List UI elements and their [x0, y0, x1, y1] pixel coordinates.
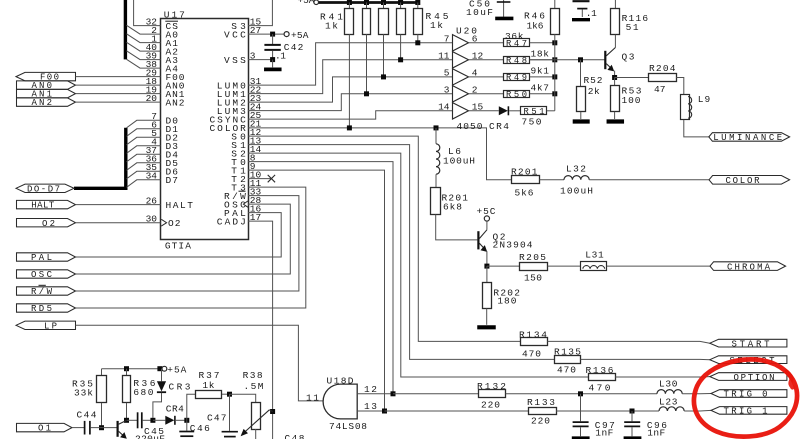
wire bus stub A0 [127, 25, 161, 34]
wire HALT to pin 26 [76, 204, 161, 206]
connector LUMINANCE (output flag) [709, 133, 790, 142]
svg-text:7: 7 [444, 33, 450, 44]
svg-text:20: 20 [146, 93, 158, 104]
svg-text:26: 26 [146, 195, 158, 206]
svg-text:R134: R134 [519, 329, 547, 340]
wire VCC pin27 to +5A [248, 33, 284, 35]
connector PAL (input flag) [17, 253, 76, 261]
svg-text:L30: L30 [659, 379, 678, 390]
svg-text:34: 34 [146, 171, 158, 182]
wire R/W pin33 to R/W flag [76, 196, 299, 291]
transistor Q3 [614, 35, 616, 48]
wire buffer5 out [469, 110, 499, 112]
GTIA chip U17 body [161, 19, 249, 240]
svg-text:5: 5 [444, 68, 450, 79]
svg-text:36k: 36k [505, 31, 524, 42]
resistor R41 1k [347, 0, 352, 5]
svg-text:470: 470 [557, 365, 576, 376]
ground R53 [614, 112, 616, 119]
connector START (output flag) [710, 339, 787, 347]
svg-text:100uH: 100uH [443, 155, 475, 166]
wire buffer out to R49 [469, 76, 504, 78]
svg-text:L23: L23 [659, 397, 678, 408]
svg-text:C48: C48 [285, 433, 305, 439]
AND gate U18D 74LS08 (mirrored) [323, 384, 357, 419]
svg-text:.1: .1 [275, 51, 286, 62]
svg-text:2N3904: 2N3904 [493, 240, 533, 251]
svg-text:CR3: CR3 [169, 381, 191, 392]
connector SELECT (output flag) [710, 356, 787, 364]
node CR3/C45 [150, 418, 155, 423]
node Q3 emitter [612, 75, 617, 80]
svg-text:R38: R38 [243, 370, 263, 381]
connector LP (output flag) [16, 321, 76, 329]
svg-text:1nF: 1nF [595, 428, 613, 439]
inductor L31 [581, 262, 607, 271]
wire LUM3 to buffer U20 input [248, 94, 453, 111]
svg-text:+5A: +5A [167, 364, 186, 375]
transistor Q2 2N3904 [486, 221, 488, 230]
trimmer R38 .5M [252, 403, 261, 430]
resistor R36 680 [126, 369, 128, 376]
svg-text:10uF: 10uF [466, 7, 493, 18]
svg-text:LUMINANCE: LUMINANCE [713, 133, 782, 143]
svg-text:680: 680 [133, 387, 153, 398]
svg-text:HALT: HALT [31, 201, 55, 211]
red annotation circle around OPTION/TRIG connectors [694, 359, 797, 436]
svg-text:750: 750 [522, 116, 542, 127]
node T1 / U18D pin13 [382, 409, 387, 414]
svg-text:C42: C42 [284, 42, 304, 53]
capacitor C96 1nF [631, 411, 633, 421]
capacitor C42 [272, 34, 274, 44]
wire R205 to L31 [548, 265, 581, 267]
svg-text:C46: C46 [190, 423, 210, 434]
resistor R136 470 [589, 374, 616, 381]
svg-text:L31: L31 [585, 250, 604, 261]
buffer U20 gate 3 [453, 69, 469, 85]
resistor R47 36k [504, 39, 530, 47]
resistor R202 180 [486, 266, 488, 283]
wire S3 pin15 up to top edge [248, 0, 272, 26]
wire R132 to L30 [506, 393, 657, 395]
wire L9 to LUMINANCE [684, 120, 710, 137]
no-connect X on T2 [268, 175, 275, 182]
connector HALT (input flag) [17, 200, 76, 208]
svg-text:R133: R133 [527, 397, 555, 408]
resistor R45 1k [415, 0, 420, 5]
wire S2 pin14 to R136 [248, 153, 589, 377]
connector OSC (input flag) [17, 270, 76, 278]
svg-text:VCC: VCC [224, 30, 246, 41]
svg-text:1k: 1k [430, 20, 443, 31]
inductor L9 [681, 95, 690, 120]
wire bus stub A3 [127, 51, 161, 60]
svg-text:14: 14 [438, 101, 450, 112]
svg-text:11: 11 [306, 392, 319, 403]
wire T2 pin10 no-connect [248, 178, 271, 180]
wire TRIG0 net to R132 [393, 393, 479, 395]
wire buffer out to R48 [469, 59, 504, 61]
OSC pin clock mark [243, 201, 248, 207]
wire R47 to R46 node [530, 42, 555, 44]
wire bus stub A1 [127, 34, 161, 43]
wire R48 output to Q3 base [530, 59, 605, 61]
wire buffer out to R50 [469, 93, 504, 95]
connector AN0 (input flag) [17, 81, 76, 89]
node R35 base [99, 425, 104, 430]
resistor R204 47 [615, 77, 648, 79]
svg-text:3: 3 [444, 84, 450, 95]
resistor R53 100 [614, 78, 616, 86]
ground R52 [580, 112, 582, 119]
svg-text:30: 30 [146, 214, 158, 225]
wire LUM0 to buffer U20 input [248, 43, 453, 85]
connector OPTION (output flag) [710, 373, 787, 381]
node C96 [630, 409, 635, 414]
ground R202 [486, 308, 488, 324]
wire S1 pin13 to R135 [248, 145, 555, 360]
ground C97 [572, 436, 590, 439]
power rail +5A (top) [315, 1, 420, 4]
resistor R201 5k6 (color out) [512, 176, 540, 184]
svg-text:RD5: RD5 [31, 304, 52, 314]
wire L31 to CHROMA [607, 265, 711, 267]
connector COLOR (output flag) [709, 176, 790, 185]
buffer U20 gate 2 [453, 52, 469, 68]
wire R37 to R38 [222, 393, 230, 395]
wire C44 to Q1 base [90, 427, 117, 429]
wire R49 to R46 node [530, 76, 555, 78]
svg-text:.5M: .5M [244, 381, 264, 392]
wire C45 to CR4 [142, 419, 153, 421]
wire L32 to COLOR [589, 179, 709, 181]
svg-text:L32: L32 [566, 164, 586, 175]
wire R201 to L32 [540, 179, 565, 181]
connector AN1 (input flag) [17, 89, 76, 97]
svg-text:R205: R205 [519, 252, 546, 263]
svg-text:AN2: AN2 [32, 98, 53, 108]
node C97 [578, 391, 583, 396]
wire Q1 collector to C45 [127, 419, 138, 421]
svg-text:VSS: VSS [224, 55, 246, 66]
resistor R37 1k [187, 394, 196, 420]
svg-text:CR4: CR4 [166, 404, 184, 415]
inductor L32 100uH [564, 176, 589, 180]
transistor Q1 (oscillator) [116, 421, 118, 437]
diode CR4 (4050 output) [499, 106, 508, 115]
node R37/C47 [227, 392, 232, 397]
wire AN0 to pin 18 [76, 84, 161, 86]
wire CADJ pin17 down to C48 [248, 221, 273, 439]
svg-text:C47: C47 [207, 413, 227, 424]
wire bus stub D0 [127, 120, 161, 128]
diode CR4 (oscillator) [165, 416, 174, 425]
svg-text:220: 220 [531, 416, 550, 427]
svg-text:11: 11 [438, 50, 450, 61]
connector DO-D7 (bus flag) [16, 184, 74, 192]
wire LP to U18D input [76, 325, 324, 401]
wire buffer out to R47 [469, 42, 504, 44]
svg-text:100uH: 100uH [560, 185, 593, 196]
svg-text:CHROMA: CHROMA [727, 262, 771, 272]
svg-text:U18D: U18D [327, 376, 354, 387]
svg-text:5k6: 5k6 [515, 187, 534, 198]
connector R/W (input flag) [17, 287, 76, 295]
wire R204 to L9 [676, 78, 684, 95]
connector TRIG 1 (output flag) [711, 407, 787, 415]
wire O2 to pin 30 [76, 222, 161, 224]
svg-text:1nF: 1nF [647, 428, 665, 439]
inductor L23 [659, 407, 684, 411]
wire T3 pin11 to RD5 [76, 187, 306, 308]
data bus (thick) [74, 128, 126, 189]
svg-text:33k: 33k [74, 388, 93, 399]
wire bus stub D3 [127, 146, 161, 154]
wire R50 to R46 node [530, 93, 555, 95]
wire L30 to TRIG 0 [682, 393, 711, 395]
wire CS from top edge to pin 32 [134, 0, 161, 26]
wire O1 to C44 [72, 427, 84, 429]
connector O2 (input flag) [17, 219, 76, 227]
node Q2 emitter [484, 264, 489, 269]
resistor R44 1k [398, 0, 403, 5]
capacitor .1 with ground (top right) [573, 0, 590, 2]
wire bus stub D4 [127, 154, 161, 162]
wire OSC pin28 to OSC flag [76, 204, 291, 274]
power rail +5A (bottom) [102, 368, 162, 370]
connector AN2 (input flag) [17, 98, 76, 106]
wire F00 to pin 29 [76, 76, 161, 78]
svg-text:150: 150 [524, 272, 542, 283]
wire PAL pin16 to PAL flag [76, 213, 282, 257]
node R37/C46 [184, 418, 189, 423]
ground C96 [624, 436, 642, 439]
wire TRIG1 net to R133 [385, 410, 529, 412]
power +5A at VCC [284, 32, 289, 37]
resistor R46 1k6 [554, 0, 556, 9]
buffer U20 gate 1 [453, 35, 469, 51]
wire R134 to START [547, 341, 709, 343]
svg-text:+5A: +5A [291, 30, 309, 41]
svg-text:R49: R49 [506, 73, 527, 83]
wire bus stub D1 [127, 129, 161, 137]
resistor R48 18k [504, 57, 530, 64]
wire bus stub D7 [127, 180, 161, 188]
svg-text:OSC: OSC [31, 270, 53, 280]
connector TRIG 0 (output flag) [711, 390, 787, 398]
pin 12 U18D wire [357, 393, 393, 395]
svg-text:1k: 1k [325, 20, 338, 31]
capacitor C47 [229, 394, 231, 431]
wire CR4 to R37 node [175, 419, 187, 421]
pin 13 U18D wire [357, 410, 384, 412]
svg-text:4050: 4050 [457, 121, 483, 132]
svg-text:220uF: 220uF [135, 434, 165, 439]
svg-text:9k1: 9k1 [531, 66, 550, 77]
wire bus stub D5 [127, 163, 161, 171]
svg-text:DO-D7: DO-D7 [27, 184, 60, 194]
resistor R50 4k7 [504, 91, 530, 98]
wire S0 pin12 to R134 [248, 136, 521, 341]
connector F00 (output flag) [16, 72, 76, 80]
resistor R52 2k [580, 60, 582, 86]
svg-text:+5A: +5A [298, 0, 315, 6]
svg-text:OPTION: OPTION [734, 373, 775, 383]
svg-text:470: 470 [522, 349, 541, 360]
buffer U20 gate 4 [453, 86, 469, 102]
resistor R135 470 [555, 356, 581, 364]
svg-text:1k: 1k [202, 380, 214, 391]
power +5A terminal [162, 366, 167, 371]
wire R201 to Q2 base [436, 215, 478, 240]
wire bus stub A2 [127, 42, 161, 51]
capacitor C50 10uF [503, 0, 505, 17]
svg-text:1k6: 1k6 [527, 20, 544, 31]
svg-text:18k: 18k [531, 49, 550, 60]
capacitor C97 1nF [580, 394, 582, 422]
svg-text:100: 100 [622, 95, 641, 106]
wire CR3 to C45/CR4 node [153, 393, 162, 418]
capacitor C44 [84, 421, 86, 435]
svg-text:GTIA: GTIA [165, 240, 191, 251]
address bus (thick) [124, 0, 127, 59]
resistor R133 220 [529, 408, 557, 415]
wire T0 pin8 down to TRIG0 net [248, 162, 393, 394]
buffer U20 gate 5 [453, 103, 469, 119]
wire T1 pin9 down to TRIG1 net [248, 170, 385, 411]
resistor R43 1k [381, 0, 386, 5]
svg-text:COLOR: COLOR [726, 176, 761, 186]
svg-text:470: 470 [589, 383, 611, 394]
wire CSYNC to buffer U20 input [248, 111, 453, 119]
resistor R116 51 [614, 0, 616, 9]
resistor R49 9k1 [504, 74, 530, 81]
svg-text:O2: O2 [168, 218, 181, 229]
wire bus stub D6 [127, 171, 161, 179]
capacitor C46 [186, 420, 188, 430]
resistor R205 150 [487, 265, 520, 267]
svg-text:51: 51 [626, 22, 639, 33]
svg-text:R136: R136 [586, 365, 614, 376]
svg-text:R201: R201 [511, 166, 538, 177]
svg-text:R52: R52 [584, 75, 603, 86]
wire R136 to OPTION [615, 376, 710, 378]
resistor R51 750 [521, 107, 547, 115]
wire AN1 to pin 19 [76, 93, 161, 95]
wire COLOR net pin21 [248, 128, 512, 180]
svg-text:2k: 2k [588, 86, 600, 97]
wire bus stub A4 [127, 59, 161, 68]
svg-text:R/W: R/W [31, 287, 53, 297]
svg-text:U17: U17 [164, 9, 185, 20]
wire VSS pin3 to ground [248, 59, 273, 61]
svg-text:220: 220 [481, 400, 500, 411]
node R38 wiper on CADJ net [270, 409, 275, 414]
connector RD5 (input flag) [17, 304, 76, 312]
resistor R134 470 [521, 338, 548, 346]
diode CR3 [161, 369, 163, 382]
svg-text:R50: R50 [506, 90, 527, 100]
resistor R42 1k [364, 0, 369, 5]
junction L6 on COLOR net [434, 125, 439, 130]
svg-text:CR4: CR4 [489, 121, 509, 132]
svg-text:13: 13 [364, 401, 377, 412]
wire R133 to L23 [556, 410, 659, 412]
svg-text:D7: D7 [166, 175, 179, 186]
node R36 collector [124, 418, 129, 423]
wire R135 to SELECT [581, 358, 710, 360]
resistor R201 6k8 [435, 174, 437, 188]
wire R46 node vertical [554, 34, 556, 111]
svg-text:180: 180 [497, 296, 516, 307]
svg-text:4k7: 4k7 [531, 83, 550, 94]
inductor L30 [657, 390, 682, 394]
svg-text:PAL: PAL [31, 253, 52, 263]
inductor L6 100uH [435, 128, 437, 144]
svg-text:R132: R132 [477, 381, 506, 392]
svg-text:12: 12 [364, 384, 377, 395]
wire bus stub D2 [127, 137, 161, 145]
svg-text:L9: L9 [698, 94, 711, 105]
resistor R132 220 [479, 390, 506, 398]
svg-text:.1: .1 [586, 8, 597, 19]
connector CHROMA (output flag) [710, 262, 786, 271]
connector O1 (input flag) [17, 423, 73, 431]
wire L23 to TRIG 1 [684, 409, 711, 412]
svg-text:Q3: Q3 [622, 52, 635, 63]
svg-text:R48: R48 [506, 56, 527, 66]
node T0 / U18D pin12 [391, 391, 396, 396]
svg-text:HALT: HALT [166, 200, 194, 211]
wire LUM2 to buffer U20 input [248, 77, 453, 102]
svg-text:6k8: 6k8 [443, 202, 462, 213]
svg-text:C44: C44 [77, 410, 97, 421]
wire LUM1 to buffer U20 input [248, 60, 453, 94]
capacitor C45 220uF [137, 412, 139, 428]
svg-text:R204: R204 [649, 63, 676, 74]
svg-text:AN2: AN2 [166, 98, 185, 109]
svg-text:47: 47 [654, 84, 666, 95]
svg-text:74LS08: 74LS08 [329, 421, 367, 432]
wire R48 to R46 node [530, 59, 555, 61]
resistor R35 33k [101, 369, 103, 376]
svg-text:R135: R135 [554, 347, 581, 358]
ground at VSS [272, 60, 274, 68]
wire AN2 to pin 20 [76, 101, 161, 103]
